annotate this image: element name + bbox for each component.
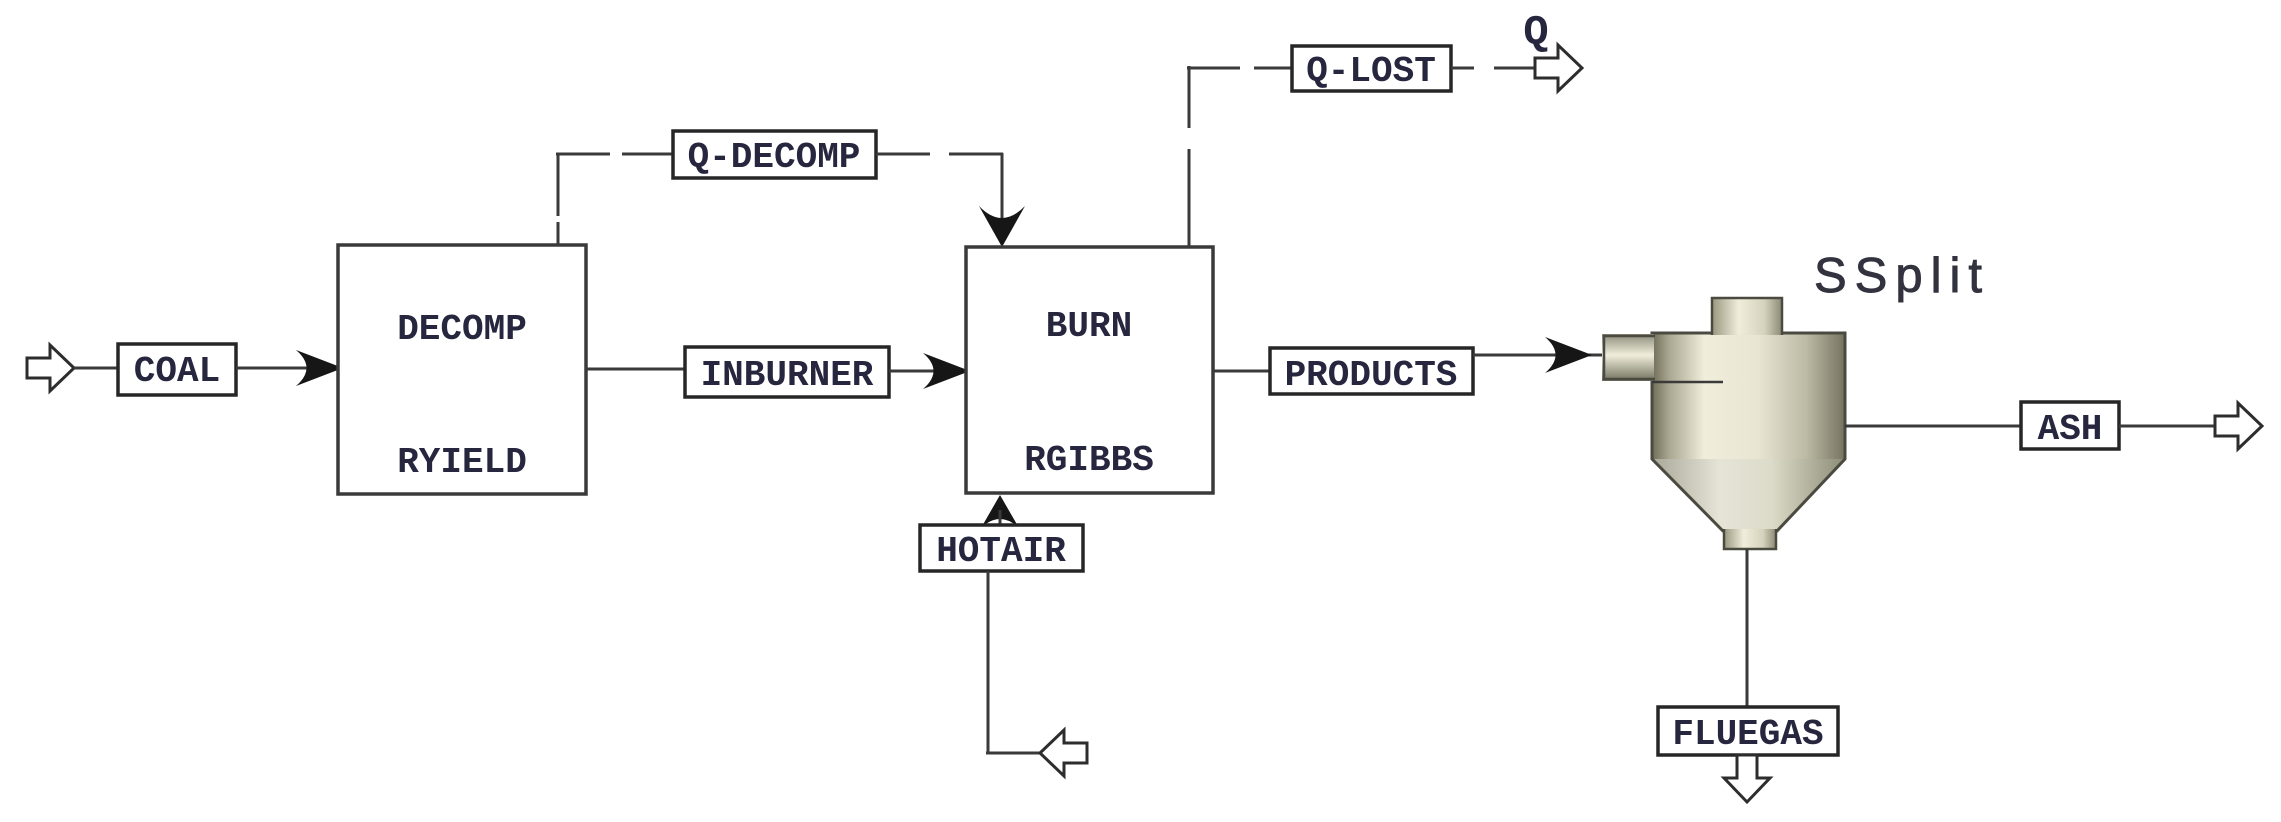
wire HOTAIR arrow stem [999, 510, 1002, 527]
stream label HOTAIR [920, 525, 1083, 571]
arrowhead down into BURN top [979, 206, 1025, 247]
product arrow Q sink [1535, 45, 1582, 91]
svg-text:ASH: ASH [2038, 409, 2103, 450]
wire Q-LOST horizontal dashes left [1187, 67, 1240, 70]
wire Q-DECOMP vertical into BURN [1001, 153, 1004, 238]
product arrow ASH sink [2215, 403, 2262, 449]
svg-text:FLUEGAS: FLUEGAS [1672, 714, 1823, 755]
arrowhead into BURN [923, 353, 970, 389]
wire ASH from splitter [1845, 425, 2025, 428]
splitter SSplit body [1652, 333, 1845, 459]
svg-text:Q: Q [1523, 9, 1548, 57]
stream label COAL [118, 344, 236, 395]
svg-text:SSplit: SSplit [1814, 249, 1990, 303]
svg-text:HOTAIR: HOTAIR [936, 531, 1066, 572]
splitter outline [1652, 333, 1845, 531]
splitter internal line [1652, 381, 1723, 384]
wire HOTAIR horizontal [986, 752, 1048, 755]
wire HOTAIR vertical [987, 571, 990, 754]
wire INBURNER from DECOMP [586, 368, 690, 371]
stream label PRODUCTS [1270, 348, 1473, 394]
wire Q-LOST horizontal dashes right [1451, 67, 1474, 70]
splitter bottom nozzle [1724, 529, 1776, 549]
stream label INBURNER [685, 347, 889, 397]
svg-text:COAL: COAL [134, 351, 220, 392]
wire FLUEGAS from splitter bottom [1746, 549, 1749, 710]
arrowhead into DECOMP [296, 350, 343, 386]
svg-text:PRODUCTS: PRODUCTS [1285, 355, 1458, 396]
wire ASH label to sink [2119, 425, 2218, 428]
svg-text:INBURNER: INBURNER [701, 355, 874, 396]
wire Q-DECOMP vertical from DECOMP top [557, 222, 560, 245]
wire INBURNER to BURN [889, 370, 938, 373]
product arrow FLUEGAS sink [1724, 755, 1770, 802]
stream label Q-LOST [1292, 46, 1451, 91]
svg-text:Q-DECOMP: Q-DECOMP [688, 137, 861, 178]
arrowhead into cyclone [1545, 337, 1592, 373]
svg-text:BURN: BURN [1046, 306, 1132, 347]
wire PRODUCTS from BURN [1213, 370, 1275, 373]
splitter inlet nozzle [1602, 334, 1654, 381]
block BURN RGIBBS [966, 247, 1213, 493]
wire Q-DECOMP horizontal dashes right [876, 153, 930, 156]
wire COAL label to DECOMP [236, 367, 310, 370]
stream label ASH [2021, 402, 2119, 449]
splitter top nozzle [1712, 297, 1782, 335]
feed arrow COAL source [27, 345, 74, 391]
wire Q-LOST vertical dashed from BURN top [1188, 149, 1191, 247]
block DECOMP RYIELD [338, 245, 586, 494]
svg-text:Q-LOST: Q-LOST [1306, 51, 1436, 92]
wire COAL source to label [74, 367, 122, 370]
svg-text:RYIELD: RYIELD [397, 442, 527, 483]
wire Q-DECOMP horizontal dashes left [556, 153, 610, 156]
wire HOTAIR up into BURN bottom [981, 495, 1019, 528]
svg-text:DECOMP: DECOMP [397, 309, 527, 350]
svg-text:RGIBBS: RGIBBS [1024, 440, 1154, 481]
wire PRODUCTS to cyclone [1473, 354, 1603, 357]
stream label Q-DECOMP [673, 131, 876, 178]
stream label FLUEGAS [1658, 707, 1838, 755]
splitter cone [1652, 459, 1845, 531]
feed arrow HOTAIR source [1040, 730, 1087, 776]
